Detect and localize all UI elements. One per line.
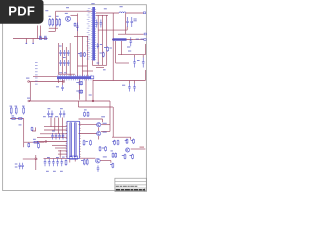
- wire mid right vertical: [109, 101, 111, 131]
- transistor Q3: [97, 131, 101, 135]
- label R12 value: [76, 91, 79, 92]
- capacitor C8: [76, 23, 79, 32]
- wire pack to border pin: [133, 39, 144, 41]
- capacitor C27: [97, 165, 100, 172]
- label bottom row value B: [56, 157, 59, 158]
- resistor R6: [102, 52, 104, 57]
- wire cluster bottom link: [49, 31, 56, 33]
- label R7 value: [104, 47, 106, 48]
- transistor Q1: [66, 16, 71, 21]
- wire below bar to node: [92, 79, 94, 101]
- label C2 value2: [134, 20, 137, 21]
- wire long mid horizontal: [29, 100, 93, 102]
- capacitor C14: [59, 60, 62, 66]
- label 100n A: [49, 116, 52, 117]
- label RN1 value2: [141, 39, 144, 40]
- capacitor C1: [126, 17, 129, 27]
- label PLN net: [66, 7, 69, 8]
- capacitor C10: [100, 20, 103, 28]
- wire right area drop: [130, 137, 132, 140]
- label D1 value: [33, 139, 36, 140]
- wire through resistor pack: [112, 39, 133, 41]
- resistor R12: [79, 90, 81, 94]
- wire bus feed 3: [58, 118, 60, 134]
- resistor R30: [90, 140, 92, 146]
- capacitor C9: [96, 20, 99, 28]
- label 100n left: [15, 167, 18, 168]
- label cluster value A: [59, 46, 62, 47]
- pin P2 right edge: [144, 33, 146, 35]
- wire right vertical rail: [112, 13, 114, 81]
- label R17 value: [12, 115, 15, 116]
- wire bus feed 1: [50, 118, 52, 127]
- wire center vertical 4: [69, 43, 71, 76]
- crystal Y1 next to bar: [91, 76, 94, 79]
- wire top rail to right pin: [126, 12, 144, 14]
- resistor R8: [39, 38, 43, 40]
- wire horizontal above IC bar: [58, 73, 75, 75]
- title block text row upper: [116, 186, 119, 187]
- wire bus feed 4: [62, 118, 64, 138]
- label 4k7: [43, 116, 46, 117]
- resistor R10: [79, 81, 81, 85]
- capacitor C18: [51, 133, 54, 140]
- capacitor C7: [133, 84, 136, 92]
- label PNP ref: [103, 156, 107, 157]
- resistor R23: [126, 139, 128, 145]
- label C3 value: [127, 47, 130, 48]
- wire Q2 base: [79, 124, 97, 126]
- resistor R28: [115, 153, 117, 159]
- capacitor C28 left: [19, 163, 22, 170]
- wire y34 to right pin: [118, 33, 144, 35]
- resistor R29: [83, 140, 85, 146]
- capacitor C17: [61, 85, 64, 91]
- capacitor C6: [128, 84, 131, 92]
- label under J1 B: [103, 69, 106, 70]
- wire Q4 base up: [97, 157, 99, 159]
- label R40 value: [78, 53, 80, 54]
- resistor R33: [83, 159, 85, 166]
- connector J1 pin name labels: [87, 8, 91, 59]
- capacitor C23 bottom row: [48, 159, 51, 167]
- pin dot A: [26, 43, 28, 44]
- label R33 value: [81, 160, 83, 161]
- resistor R34: [86, 159, 88, 166]
- wire left of IC bar: [33, 75, 57, 77]
- resistor pack RN1: [113, 38, 127, 41]
- wire right column rail 2: [101, 15, 103, 65]
- label under J1 A: [97, 63, 100, 64]
- wire horizontal above verticals: [74, 36, 88, 38]
- label TP9 net: [26, 78, 29, 79]
- label R1 value: [49, 15, 52, 18]
- wire bus line 3: [40, 133, 67, 135]
- wire below bar vertical 3: [58, 79, 60, 83]
- capacitor C13: [67, 50, 70, 56]
- resistor R18: [18, 118, 24, 120]
- label L1 value: [120, 6, 123, 7]
- wire cluster mid link: [49, 27, 58, 29]
- wire cap pair bottom link: [126, 27, 128, 31]
- wire IC bottom drop 1: [69, 159, 71, 163]
- wire y107 drop: [77, 101, 79, 107]
- wire transistor drop: [102, 119, 104, 122]
- resistor R13: [81, 90, 83, 94]
- label 470 value: [56, 86, 59, 87]
- capacitor C20: [58, 133, 61, 140]
- label C30 value: [60, 108, 63, 109]
- wire stub down A: [25, 39, 27, 43]
- wire right area y137: [112, 136, 131, 138]
- label Q3 ref BC846: [103, 132, 107, 133]
- label below caps row C: [60, 171, 63, 172]
- wire bottom left vertical: [35, 159, 37, 170]
- resistor R4: [59, 18, 61, 27]
- capacitor C15: [63, 60, 66, 66]
- wire y107 segment: [78, 106, 113, 108]
- label C2 value: [134, 19, 137, 20]
- wire lower-left vertical: [23, 119, 25, 148]
- wire Q2-Q3 link: [98, 127, 100, 131]
- capacitor C16: [67, 60, 70, 66]
- label above caps row C: [62, 157, 65, 158]
- label R6 value: [100, 53, 102, 54]
- label R31 value: [102, 148, 104, 149]
- capacitor C5: [142, 58, 145, 68]
- label TP8 net: [91, 2, 94, 5]
- wire upper-left horizontal: [13, 38, 48, 40]
- wire cap drop D: [134, 81, 136, 84]
- wire transistor rail top: [79, 118, 103, 120]
- label R9 value: [44, 36, 47, 37]
- transistor Q4: [96, 158, 101, 163]
- wire vertical above bar 1: [77, 14, 79, 77]
- title block divider 1: [115, 181, 147, 183]
- IC U1 right pin marks: [80, 123, 81, 157]
- diode D1: [33, 141, 39, 143]
- connector J1 vertical pin bar: [91, 7, 96, 61]
- resistor R31: [99, 146, 101, 152]
- IC U1 inner pin column A fill: [70, 123, 71, 156]
- label R25 value: [122, 155, 124, 156]
- wire loop right of R19: [32, 127, 36, 131]
- wire pack bottom link: [116, 62, 129, 64]
- label R10 value: [76, 82, 79, 83]
- label R35 value: [110, 164, 112, 165]
- wire cap drop B: [142, 55, 144, 58]
- label R38 value: [84, 109, 87, 110]
- resistor R42: [28, 143, 30, 148]
- label R3 value: [56, 15, 59, 18]
- label bottom row value A: [47, 157, 50, 158]
- resistor R22: [117, 140, 119, 146]
- label PLM net: [45, 10, 48, 11]
- label R16 value: [22, 106, 25, 107]
- wire top rail left section: [56, 10, 93, 12]
- wire below bar vertical 2: [62, 79, 64, 85]
- title block small cell divider: [143, 188, 145, 192]
- IC U1 central box: [67, 121, 80, 158]
- wire IC left pin 2: [58, 153, 67, 155]
- label R8 value: [39, 36, 42, 37]
- resistor R9: [43, 38, 47, 40]
- resistor R26: [132, 154, 134, 160]
- label 10u: [15, 164, 18, 165]
- transistor Q5: [126, 148, 130, 152]
- resistor R17: [11, 118, 16, 120]
- wire right bend up: [144, 70, 146, 81]
- capacitor C2: [131, 17, 134, 27]
- title block outline: [115, 178, 147, 191]
- wire lower-left horizontal: [10, 118, 24, 120]
- label TP11 net: [27, 98, 30, 99]
- wire vertical above bar 3: [86, 36, 88, 76]
- wire bottom feed 1: [59, 150, 61, 158]
- capacitor C22 bottom row: [44, 159, 47, 167]
- resistor R41: [84, 52, 86, 57]
- wire right column rail 1: [97, 15, 99, 65]
- capacitor C26 bottom row: [61, 159, 64, 167]
- wire IC left pin 4: [55, 147, 67, 149]
- wire right column rail 3: [106, 15, 108, 65]
- resistor R21: [114, 140, 116, 146]
- capacitor C4: [133, 58, 136, 68]
- capacitor C12: [63, 50, 66, 56]
- label 100n col: [52, 131, 55, 132]
- label C32 value: [100, 44, 102, 45]
- resistor R11: [81, 81, 83, 85]
- wire pack left down 2: [121, 41, 123, 55]
- wire center vertical 2: [62, 43, 64, 74]
- node TP9 junction: [28, 81, 30, 83]
- capacitor C32: [97, 43, 100, 49]
- resistor R39: [87, 112, 89, 118]
- capacitor C33 midleft: [47, 111, 50, 118]
- capacitor C19: [55, 133, 58, 140]
- resistor R7: [107, 46, 109, 51]
- label Q1 ref: [65, 13, 68, 14]
- resistor R19: [31, 127, 33, 131]
- node bus junction: [45, 141, 47, 143]
- wire below bar vertical: [79, 79, 81, 100]
- node mid junction: [63, 81, 65, 83]
- label C33 value: [48, 108, 51, 109]
- resistor R36: [65, 159, 67, 166]
- wire horizontal right column top: [96, 14, 108, 16]
- wire bottom row rail: [44, 157, 70, 159]
- resistor R24: [133, 139, 135, 145]
- resistor R25: [124, 154, 126, 160]
- wire IC left pin 3: [52, 144, 67, 146]
- label 12MHz: [59, 72, 62, 73]
- wire lower-left y142: [24, 141, 45, 143]
- resistor R20: [38, 143, 40, 149]
- wire bottom left horizontal: [23, 158, 38, 160]
- wire IC bottom drop 2: [74, 159, 76, 162]
- IC U1 left pin marks: [66, 123, 67, 157]
- wire stub up A: [37, 26, 39, 39]
- wire right bend up 2: [144, 44, 146, 55]
- capacitor C31 midleft: [63, 111, 66, 118]
- wire top rail right of connector: [96, 12, 119, 14]
- wire under J1 bar vertical: [91, 61, 93, 66]
- label TP10 net: [101, 116, 105, 117]
- pin dot B: [32, 43, 34, 44]
- wire stub down B: [32, 39, 34, 43]
- wire Q2 collector right: [101, 124, 110, 126]
- wire y80 long right: [93, 80, 145, 82]
- wire vertical link topright: [125, 13, 127, 34]
- label C4 value: [137, 60, 140, 61]
- wire under J1 bar horizontal: [92, 64, 106, 66]
- wire mid horizontal right part: [93, 100, 110, 102]
- label below caps row A: [46, 171, 49, 172]
- schematic page border frame: [3, 5, 147, 191]
- wire pack left down: [115, 41, 117, 63]
- wire above node stub: [35, 155, 37, 158]
- label R15 value: [15, 106, 18, 107]
- wire Q5 output: [131, 148, 146, 150]
- resistor R16: [23, 107, 25, 115]
- wire under J1 short horizontal: [96, 67, 104, 69]
- label R29 value: [86, 141, 88, 142]
- IC U1 inner pin column B: [74, 123, 76, 157]
- resistor R3: [56, 18, 58, 27]
- capacitor C24 bottom row: [52, 159, 55, 167]
- pin P1 right edge: [143, 12, 145, 14]
- wire below bar vertical 4: [85, 79, 87, 101]
- label R7 value2: [110, 48, 112, 49]
- resistor R40: [80, 52, 82, 57]
- capacitor C30 midleft: [59, 111, 62, 118]
- label RN1 value: [136, 39, 139, 40]
- transistor Q2: [97, 123, 101, 127]
- wire TP9 horizontal: [29, 81, 64, 83]
- capacitor C29 left: [21, 163, 24, 170]
- wire bottom feed 2: [66, 150, 68, 158]
- wire IC left pin 1: [58, 150, 67, 152]
- label R21 value: [112, 141, 114, 142]
- label rails top: [104, 8, 107, 9]
- label net 22TPO: [128, 51, 131, 52]
- IC U2 horizontal pin bar: [57, 75, 91, 81]
- wire y30 horizontal: [98, 29, 127, 31]
- wire Q4 right drop: [110, 161, 112, 163]
- capacitor C25 bottom row: [56, 159, 59, 167]
- label below caps row B: [53, 171, 56, 172]
- resistor R35: [112, 163, 114, 169]
- label Q2 ref BC846: [103, 123, 107, 124]
- wire between rails y71: [83, 70, 94, 72]
- resistor R1: [49, 18, 51, 27]
- resistor R15: [15, 107, 17, 115]
- resistor R14: [10, 107, 12, 115]
- resistor R2: [52, 18, 54, 27]
- wire cap drop A: [134, 55, 136, 58]
- label Y1 value: [64, 72, 67, 73]
- wire Q3 collector right: [101, 130, 110, 132]
- wire center vertical 3: [65, 47, 67, 74]
- label PM8 net: [89, 95, 92, 96]
- wire bus feed 2: [54, 118, 56, 131]
- wire Q1 collector: [71, 14, 78, 16]
- resistor R32: [105, 146, 107, 152]
- label R14 value: [10, 106, 13, 107]
- wire bus line 1: [44, 126, 67, 128]
- label 40k value: [19, 124, 22, 125]
- resistor R27: [112, 153, 114, 159]
- wire bus line 4: [37, 137, 67, 139]
- wire vertical drop from top rail: [55, 11, 57, 31]
- resistor R5: [74, 23, 76, 27]
- node bottom left junction: [35, 158, 37, 160]
- wire Q3 base: [79, 133, 97, 135]
- wire TP9 vertical: [29, 82, 31, 101]
- wire center vertical 1: [58, 43, 60, 74]
- wire bus line 5: [37, 141, 67, 143]
- svg-text:PDF: PDF: [8, 3, 35, 18]
- title block divider 3: [115, 187, 147, 189]
- title block divider 2: [115, 184, 147, 186]
- label cluster value B: [63, 57, 66, 58]
- wire stub up B: [40, 26, 42, 39]
- inductor L1: [119, 12, 126, 13]
- pin P3 right edge: [144, 39, 146, 41]
- IC U1 inner pin column A: [70, 123, 72, 157]
- wire y55 right: [118, 54, 145, 56]
- wire Q3 emitter down: [98, 136, 100, 140]
- PDF badge: [0, 0, 44, 24]
- label net-name column left-mid: [35, 61, 38, 64]
- label PGB net: [140, 147, 145, 148]
- connector J2 bottom: [70, 156, 78, 159]
- wire Q4 rail: [80, 157, 96, 159]
- node mid-wire junction left: [28, 100, 30, 102]
- IC U1 inner pin column B fill: [75, 123, 76, 156]
- wire bus line 2: [44, 129, 67, 131]
- wire cap drop C: [128, 81, 130, 84]
- node long-wire junction: [92, 100, 94, 102]
- label R26 value: [130, 155, 132, 156]
- wire between rails y66: [78, 65, 88, 67]
- label 10k A: [125, 140, 127, 141]
- capacitor C34 midleft: [51, 111, 54, 118]
- wire vertical above bar 2: [82, 36, 84, 76]
- wire right area vertical: [112, 107, 114, 137]
- capacitor C21: [62, 133, 65, 140]
- capacitor C3: [130, 37, 133, 46]
- label C6 value: [122, 85, 125, 86]
- wire Q4 emitter right: [100, 160, 111, 162]
- label 100n B: [55, 116, 58, 117]
- capacitor C11: [59, 50, 62, 56]
- title block text row lower: [116, 189, 120, 190]
- resistor R38: [84, 112, 86, 118]
- label 10k B: [131, 140, 133, 141]
- label R27 value: [111, 150, 113, 151]
